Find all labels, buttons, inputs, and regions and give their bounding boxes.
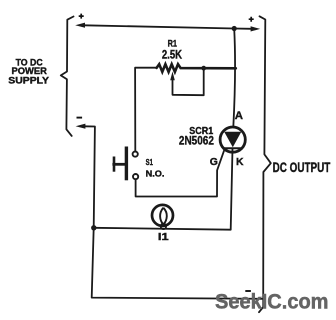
svg-text:I1: I1 (158, 232, 169, 243)
svg-text:S1: S1 (146, 157, 153, 167)
svg-text:N.O.: N.O. (146, 169, 165, 179)
svg-text:SUPPLY: SUPPLY (8, 75, 49, 85)
svg-text:G: G (210, 157, 218, 168)
svg-text:2.5K: 2.5K (162, 48, 182, 62)
svg-text:A: A (235, 110, 243, 122)
svg-text:K: K (236, 157, 244, 168)
svg-text:DC OUTPUT: DC OUTPUT (273, 160, 331, 175)
svg-text:SeekIC.com: SeekIC.com (215, 291, 329, 314)
svg-text:2N5062: 2N5062 (179, 134, 214, 148)
